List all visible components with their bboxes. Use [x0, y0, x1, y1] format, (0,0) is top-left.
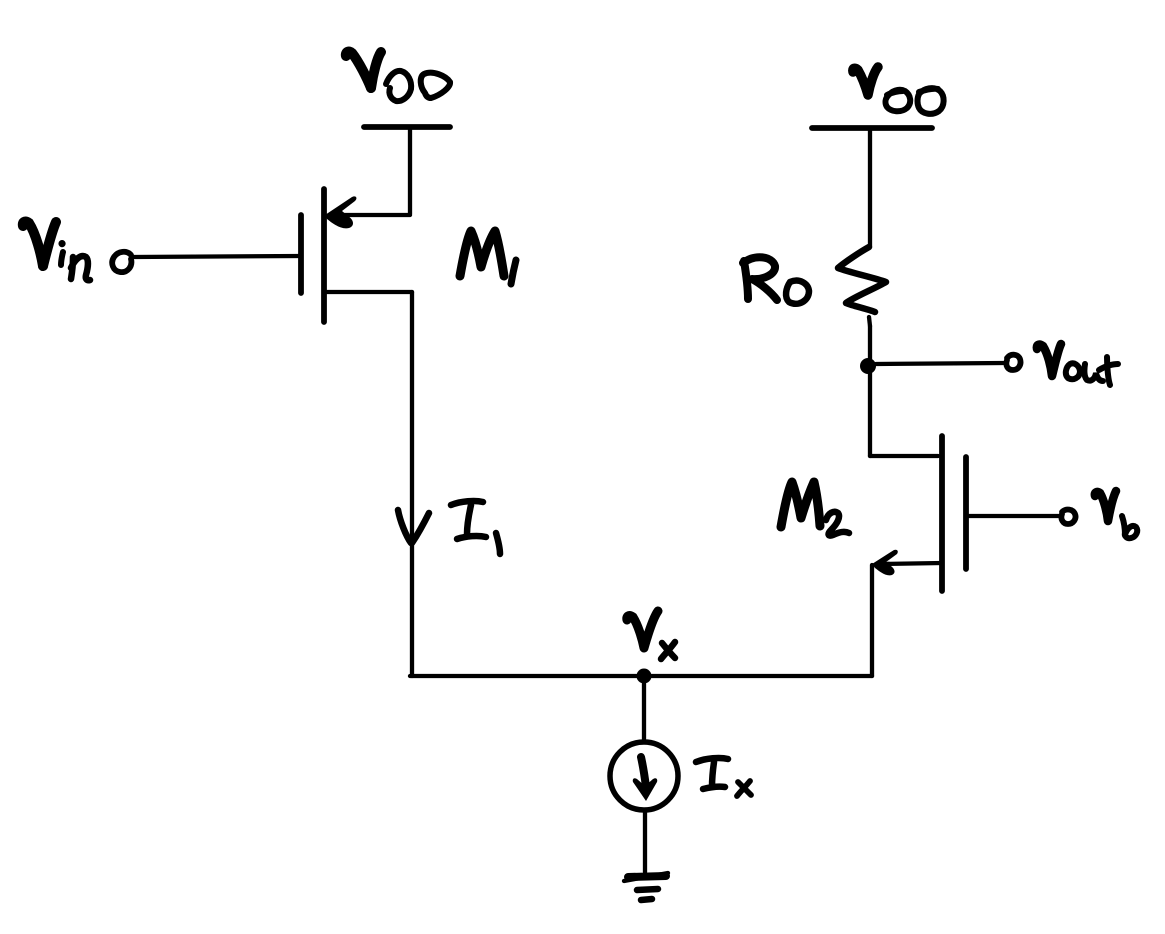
wire: VDD rail to resistor RD	[868, 130, 872, 246]
node Vout terminal circle	[1006, 355, 1020, 370]
power VDD label (left branch)	[346, 52, 450, 102]
wire: Vx node to current source	[642, 676, 646, 741]
M2 drain connector	[870, 454, 938, 458]
node Vin label	[23, 222, 90, 281]
current I1 label	[451, 501, 500, 554]
transistor M2 gate bar	[963, 457, 969, 569]
node Vb label	[1095, 491, 1137, 538]
M1 drain connector	[325, 290, 412, 294]
node Vx label	[627, 611, 675, 659]
M1 source connector with arrow	[325, 196, 410, 228]
transistor M1 label	[460, 231, 516, 284]
resistor RD	[838, 247, 886, 326]
resistor RD label	[743, 257, 809, 304]
transistor M2 channel bar	[939, 436, 945, 591]
power VDD rail (left)	[364, 124, 450, 130]
wire: bottom rail Vx	[410, 674, 872, 678]
wire: current source to ground	[643, 812, 647, 872]
current source Ix	[610, 742, 678, 810]
junction node Vout dot	[860, 358, 876, 374]
power VDD rail (right)	[812, 125, 932, 131]
wire: Vin terminal to M1 gate	[133, 256, 301, 257]
node Vin terminal circle	[112, 252, 131, 272]
current I1 direction arrow	[398, 510, 429, 543]
junction node Vx dot	[637, 669, 652, 684]
wire: M2 source down to bottom rail	[870, 565, 874, 676]
wire: M2 gate to Vb terminal	[968, 514, 1059, 518]
wire: node to Vout terminal	[876, 363, 1004, 364]
transistor M1 channel bar	[321, 189, 327, 322]
wire: VDD rail to M1 source	[408, 129, 412, 214]
node Vout label	[1037, 344, 1118, 385]
node Vb terminal circle	[1061, 510, 1075, 524]
wire: M1 drain down to bottom rail	[410, 292, 414, 676]
current Ix label	[696, 758, 751, 796]
transistor M1 gate bar	[298, 215, 304, 293]
wire: resistor to M2 drain	[868, 326, 872, 456]
M2 source connector with arrow	[872, 550, 942, 576]
power VDD label (right branch)	[853, 67, 944, 114]
ground symbol	[624, 873, 668, 900]
transistor M2 label	[781, 482, 849, 536]
